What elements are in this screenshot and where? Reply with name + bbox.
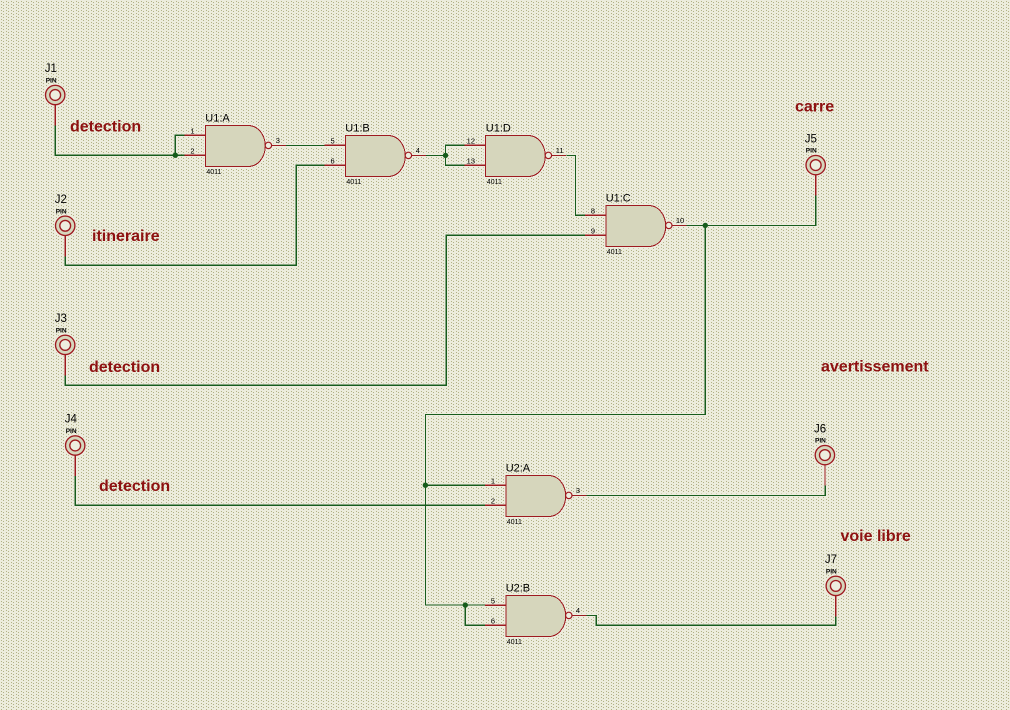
svg-text:detection: detection xyxy=(70,118,141,135)
svg-text:8: 8 xyxy=(591,206,595,215)
svg-text:U2:B: U2:B xyxy=(506,583,530,595)
svg-text:4011: 4011 xyxy=(507,519,522,526)
svg-text:U1:B: U1:B xyxy=(345,123,369,135)
svg-text:PIN: PIN xyxy=(826,569,837,576)
svg-text:J5: J5 xyxy=(805,133,817,145)
svg-text:J1: J1 xyxy=(45,63,57,75)
svg-text:voie libre: voie libre xyxy=(841,528,911,545)
svg-text:U1:C: U1:C xyxy=(606,193,631,205)
svg-text:1: 1 xyxy=(491,476,495,485)
svg-text:4011: 4011 xyxy=(346,179,361,186)
svg-text:U1:D: U1:D xyxy=(486,123,511,135)
svg-text:U1:A: U1:A xyxy=(205,112,230,124)
svg-text:PIN: PIN xyxy=(815,438,826,445)
svg-text:detection: detection xyxy=(99,478,170,495)
svg-text:12: 12 xyxy=(467,136,475,145)
svg-text:4011: 4011 xyxy=(507,639,522,646)
svg-text:PIN: PIN xyxy=(46,78,57,85)
svg-text:6: 6 xyxy=(491,616,495,625)
svg-text:5: 5 xyxy=(491,596,495,605)
svg-text:5: 5 xyxy=(331,136,335,145)
svg-text:U2:A: U2:A xyxy=(506,463,531,475)
svg-text:3: 3 xyxy=(576,486,580,495)
svg-text:detection: detection xyxy=(89,359,160,376)
svg-text:J6: J6 xyxy=(814,423,826,435)
svg-text:itineraire: itineraire xyxy=(92,228,160,245)
svg-text:PIN: PIN xyxy=(806,148,817,155)
svg-text:J3: J3 xyxy=(55,313,67,325)
svg-text:1: 1 xyxy=(190,126,194,135)
svg-text:11: 11 xyxy=(556,146,564,155)
svg-text:13: 13 xyxy=(467,156,475,165)
svg-text:10: 10 xyxy=(676,216,684,225)
svg-text:4011: 4011 xyxy=(607,249,622,256)
svg-text:9: 9 xyxy=(591,226,595,235)
svg-text:3: 3 xyxy=(276,136,280,145)
svg-text:2: 2 xyxy=(491,496,495,505)
svg-text:carre: carre xyxy=(795,99,834,116)
svg-text:PIN: PIN xyxy=(56,328,67,335)
svg-text:avertissement: avertissement xyxy=(821,359,929,376)
svg-text:J7: J7 xyxy=(825,554,837,566)
svg-text:2: 2 xyxy=(190,146,194,155)
svg-text:J2: J2 xyxy=(55,194,67,206)
svg-text:6: 6 xyxy=(331,156,335,165)
svg-text:4: 4 xyxy=(576,606,580,615)
svg-text:J4: J4 xyxy=(65,414,78,426)
svg-text:4011: 4011 xyxy=(487,179,502,186)
svg-text:4: 4 xyxy=(416,146,420,155)
svg-text:PIN: PIN xyxy=(56,208,67,215)
svg-text:4011: 4011 xyxy=(206,169,221,176)
svg-text:PIN: PIN xyxy=(66,428,77,435)
